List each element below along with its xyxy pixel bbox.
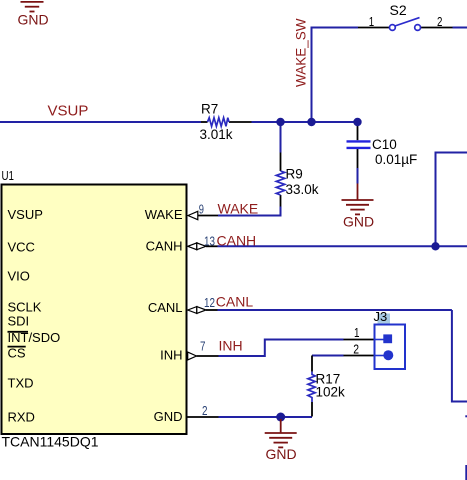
svg-text:102k: 102k: [316, 385, 346, 400]
svg-text:13: 13: [204, 234, 215, 248]
svg-text:GND: GND: [154, 409, 183, 424]
svg-text:7: 7: [200, 340, 206, 354]
svg-text:SCLK: SCLK: [8, 300, 42, 315]
svg-text:GND: GND: [343, 214, 374, 230]
svg-text:S2: S2: [390, 2, 407, 18]
svg-text:CS: CS: [8, 346, 26, 361]
svg-text:2: 2: [202, 404, 208, 418]
svg-text:INH: INH: [219, 338, 243, 354]
svg-text:CANL: CANL: [216, 294, 254, 310]
svg-text:33.0k: 33.0k: [286, 182, 319, 197]
svg-text:WAKE: WAKE: [218, 201, 259, 217]
svg-text:INH: INH: [160, 348, 182, 363]
svg-text:TCAN1145DQ1: TCAN1145DQ1: [2, 434, 99, 450]
svg-text:12: 12: [204, 296, 215, 310]
svg-text:TXD: TXD: [8, 376, 34, 391]
svg-text:CANL: CANL: [148, 300, 183, 315]
svg-text:VSUP: VSUP: [48, 103, 89, 120]
svg-text:CANH: CANH: [217, 232, 257, 248]
svg-text:2: 2: [437, 14, 442, 29]
svg-text:0.01µF: 0.01µF: [375, 152, 417, 167]
svg-text:2: 2: [353, 342, 359, 357]
svg-text:C10: C10: [372, 137, 397, 152]
svg-text:GND: GND: [17, 11, 48, 27]
svg-text:VSUP: VSUP: [8, 207, 43, 222]
svg-text:VCC: VCC: [8, 240, 35, 255]
svg-text:WAKE_SW: WAKE_SW: [294, 18, 309, 87]
svg-text:WAKE: WAKE: [145, 207, 183, 222]
svg-text:VIO: VIO: [8, 269, 30, 284]
svg-text:9: 9: [199, 203, 204, 217]
svg-text:SDI: SDI: [8, 314, 30, 329]
svg-text:U1: U1: [2, 168, 15, 183]
svg-text:CANH: CANH: [146, 239, 183, 254]
svg-text:1: 1: [354, 325, 360, 340]
svg-text:3.01k: 3.01k: [200, 127, 233, 142]
svg-text:J3: J3: [374, 309, 388, 324]
svg-text:R7: R7: [201, 102, 218, 117]
svg-text:GND: GND: [265, 446, 296, 462]
svg-text:RXD: RXD: [8, 410, 35, 425]
svg-text:1: 1: [369, 14, 374, 29]
svg-text:R9: R9: [286, 167, 303, 182]
